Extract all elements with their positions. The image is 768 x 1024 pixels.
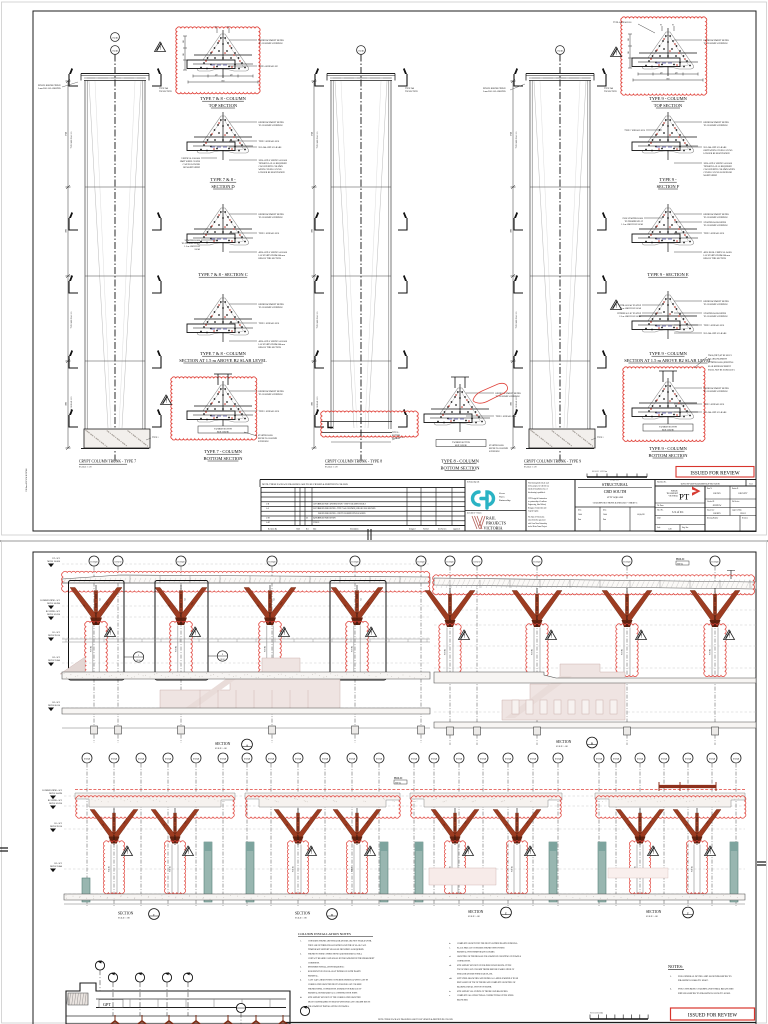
svg-text:Ed. Review: Ed. Review — [732, 501, 740, 503]
svg-text:NOTES:: NOTES: — [668, 964, 683, 969]
disclaimer cell — [526, 480, 575, 532]
svg-text:MVRL 103.350: MVRL 103.350 — [47, 614, 60, 616]
svg-text:TYPE 5 SHEAR LUGS: TYPE 5 SHEAR LUGS — [704, 403, 725, 406]
revision cloud around trunk of F1 — [629, 841, 650, 894]
svg-text:SECTION: SECTION — [215, 742, 231, 746]
slab at B3 level section A — [62, 708, 430, 714]
svg-text:COMPLETE GROUT INTO THE DUCTS: COMPLETE GROUT INTO THE DUCTS WITHIN IN-… — [457, 942, 518, 945]
svg-text:MAX 22/B2/B1: MAX 22/B2/B1 — [455, 444, 467, 447]
svg-text:ECQ-4B: ECQ-4B — [91, 562, 99, 564]
precast trunk below D2 — [353, 845, 355, 894]
svg-text:TYPE 7 & 8 - COLUMN: TYPE 7 & 8 - COLUMN — [200, 96, 247, 101]
plan Y-column symbols upper row — [111, 1015, 120, 1024]
svg-text:MVRL 103.350: MVRL 103.350 — [49, 803, 62, 805]
svg-text:1.5 m ABOVE B2 SLAB: 1.5 m ABOVE B2 SLAB — [621, 223, 643, 226]
svg-text:90: 90 — [672, 25, 674, 27]
steel Y branch column B3 — [602, 591, 652, 628]
warning triangle B4 — [724, 630, 735, 640]
precast trunk below E1 — [451, 845, 453, 894]
warning triangle A3 — [279, 627, 290, 637]
section cut flags on CRYPT COLUMN TRUNK - TYPE 8 — [398, 68, 407, 86]
svg-text:A-M: A-M — [266, 521, 270, 524]
revision cloud around trunk of B2 — [526, 624, 548, 677]
revision cloud around trunk of B4 — [704, 624, 726, 677]
svg-text:TOP SECTION: TOP SECTION — [209, 103, 238, 108]
svg-text:1905: 1905 — [66, 229, 68, 233]
svg-text:SECTION: SECTION — [468, 910, 484, 914]
warning triangle beside type 9 1.5m detail — [611, 300, 622, 310]
sheet 2 title block top line — [285, 1022, 756, 1024]
svg-text:ECQ-4B: ECQ-4B — [709, 759, 716, 761]
svg-text:CORRUGATED GROUTED DUCTS FOR P: CORRUGATED GROUTED DUCTS FOR PRECAST COL… — [308, 983, 362, 986]
svg-text:TYPE 7&8: TYPE 7&8 — [405, 88, 414, 90]
svg-text:ECQ-4B: ECQ-4B — [138, 759, 145, 761]
sheet 1 page edge — [2, 2, 767, 535]
svg-text:BEARING DETAIL ON TOP OF TRUNK: BEARING DETAIL ON TOP OF TRUNK. — [457, 986, 492, 989]
svg-text:SHALL NOT BE DAMAGED ): SHALL NOT BE DAMAGED ) — [708, 368, 735, 371]
svg-text:LONGER BE MAINTAINED: LONGER BE MAINTAINED — [259, 171, 285, 174]
steel Y branch column A4 — [331, 588, 383, 626]
steel Y branch column C2 — [151, 810, 199, 844]
svg-text:Date: Date — [313, 528, 317, 530]
column taper lines of CRYPT COLUMN TRUNK - TYPE 9 — [534, 81, 553, 428]
svg-text:SCALE 1 : 20: SCALE 1 : 20 — [325, 466, 338, 469]
svg-text:Sheet No.: Sheet No. — [657, 510, 664, 512]
svg-text:TYPE 3 SHEAR LUGS: TYPE 3 SHEAR LUGS — [259, 140, 280, 143]
svg-text:SCALE 1 : 100: SCALE 1 : 100 — [468, 915, 480, 918]
svg-text:TYP E 4SR DIA LUG: TYP E 4SR DIA LUG — [70, 131, 73, 149]
svg-text:TYPE 1 SHEAR LUGS: TYPE 1 SHEAR LUGS — [496, 415, 517, 418]
svg-text:REINFORCEMENT REFER: REINFORCEMENT REFER — [259, 304, 285, 306]
svg-text:1.5 m ABOVE B2: 1.5 m ABOVE B2 — [184, 245, 200, 248]
svg-text:245: 245 — [183, 53, 185, 56]
ceiling band section D — [245, 793, 400, 807]
pink ramp lower-left section A — [60, 657, 85, 674]
centerline over Y branch D2 — [356, 808, 358, 845]
plan room dividers — [129, 999, 131, 1008]
svg-text:ECQ-4B: ECQ-4B — [376, 759, 383, 761]
steel Y branch column E2 — [493, 810, 541, 844]
svg-text:LONGER BE MAINTAINED: LONGER BE MAINTAINED — [704, 152, 730, 155]
svg-text:B1 - SC2: B1 - SC2 — [55, 823, 62, 825]
column joint lines of CRYPT COLUMN TRUNK - TYPE 9 — [530, 186, 590, 188]
detail: type 7&8 section D — [187, 112, 253, 160]
svg-text:450: 450 — [215, 75, 218, 77]
svg-text:1905: 1905 — [511, 229, 513, 233]
svg-text:TRUNK DOWEL CONNECTION. ENSURE: TRUNK DOWEL CONNECTION. ENSURE TOP SURFA… — [308, 987, 362, 990]
column taper lines of CRYPT COLUMN TRUNK - TYPE 7 — [89, 81, 108, 428]
svg-text:SITE SURVEY ALL POINTS OF TRUN: SITE SURVEY ALL POINTS OF TRUNK AND BRAN… — [457, 990, 508, 993]
issued for review stamp sheet 2 — [671, 1008, 755, 1020]
svg-text:COGGED INTO COLUMN WHEN: COGGED INTO COLUMN WHEN — [704, 169, 736, 171]
revision cloud around trunk of B1 — [439, 624, 461, 677]
logo cell divider — [465, 510, 526, 512]
apex stub above type 8 bottom detail — [454, 377, 456, 388]
plan Y-column symbols lower row partial — [111, 1021, 120, 1024]
svg-text:MVRL 93.840: MVRL 93.840 — [48, 660, 60, 662]
svg-text:FOLLOWED BY INSTALLATION OF DO: FOLLOWED BY INSTALLATION OF DOWELS. — [308, 1005, 350, 1008]
svg-text:TRG6 (HILT) 6T RE S/DV.3: TRG6 (HILT) 6T RE S/DV.3 — [708, 354, 732, 357]
svg-text:PEDESTAL WITH TEMPORARY PACKER: PEDESTAL WITH TEMPORARY PACKERS. — [457, 951, 495, 954]
svg-text:ECQ-4B: ECQ-4B — [349, 759, 356, 761]
page separator mark — [367, 529, 369, 540]
svg-text:TOP SECTION: TOP SECTION — [159, 91, 172, 93]
svg-text:TEMPORARY SUPPORT SHALL BE PRO: TEMPORARY SUPPORT SHALL BE PROVIDED AS R… — [308, 948, 364, 951]
svg-text:ECQ-4B: ECQ-4B — [447, 562, 455, 564]
svg-text:GROUTING OF TRUNK BASE FOLLOWE: GROUTING OF TRUNK BASE FOLLOWED BY GROUT… — [457, 955, 521, 958]
svg-text:TYP E 4SR DIA LUG: TYP E 4SR DIA LUG — [316, 131, 319, 149]
svg-text:KHGVNTY: KHGVNTY — [739, 493, 749, 495]
column cap of CRYPT COLUMN TRUNK - TYPE 7 — [81, 73, 149, 75]
issued for review stamp sheet 1 — [676, 467, 754, 478]
grid line base stubs section B — [447, 727, 454, 735]
svg-text:ECQ-4B: ECQ-4B — [322, 759, 329, 761]
svg-text:TYP E 4SR DIA LUG: TYP E 4SR DIA LUG — [515, 311, 518, 329]
svg-text:INTENDED INSTALLATION SEQUENCE: INTENDED INSTALLATION SEQUENCE: — [308, 966, 345, 969]
svg-text:SECTION: SECTION — [646, 910, 662, 914]
svg-text:REINFORCEMENT REFER: REINFORCEMENT REFER — [704, 40, 730, 42]
svg-text:NOTE: THESE PACKAGE DRAWINGS A: NOTE: THESE PACKAGE DRAWINGS ARE TO BE V… — [378, 1018, 453, 1021]
svg-text:2.5 m ABOVE B2 SLAB: 2.5 m ABOVE B2 SLAB — [619, 315, 641, 318]
svg-text:N12-200 ADD L U-BARS: N12-200 ADD L U-BARS — [704, 411, 728, 414]
svg-text:CQ-4B: CQ-4B — [557, 50, 563, 52]
svg-text:Approved: Approved — [453, 527, 460, 530]
svg-text:ECQ-4B: ECQ-4B — [685, 759, 692, 761]
svg-text:TO COLUMN SCHEDULE: TO COLUMN SCHEDULE — [259, 394, 284, 396]
detail: type 9 section F — [632, 112, 698, 160]
pink stair building section B — [502, 664, 625, 720]
svg-text:STARTER BARS: STARTER BARS — [185, 239, 201, 242]
revision cloud around trunk of D2 — [346, 841, 367, 894]
drawing number bar — [655, 480, 756, 487]
detail tag 2 section A — [208, 655, 217, 657]
svg-text:Verified: Verified — [423, 527, 429, 530]
svg-text:CQ-4B: CQ-4B — [112, 37, 118, 39]
svg-text:SCALE 1 : 100: SCALE 1 : 100 — [646, 915, 658, 918]
svg-text:TAPERED SECTION: TAPERED SECTION — [659, 426, 677, 429]
svg-text:ECQ-4B: ECQ-4B — [165, 759, 172, 761]
revision cloud around trunk of A2 — [170, 621, 193, 675]
svg-text:A-M: A-M — [266, 517, 270, 520]
svg-text:PC6-B2: PC6-B2 — [512, 866, 514, 872]
column joint lines of CRYPT COLUMN TRUNK - TYPE 7 — [85, 186, 145, 188]
svg-text:VICTORIA: VICTORIA — [484, 526, 503, 531]
svg-text:Plant/Item No.: Plant/Item No. — [657, 482, 667, 484]
svg-text:ECQ-4B: ECQ-4B — [111, 759, 118, 761]
svg-text:MVRL 104.390: MVRL 104.390 — [49, 793, 62, 795]
svg-text:380: 380 — [183, 40, 185, 43]
svg-text:REINFORCEMENT REFER: REINFORCEMENT REFER — [259, 214, 285, 216]
steel Y branch column B1 — [425, 591, 475, 628]
teal escalator bars row 2 — [204, 842, 212, 902]
svg-text:CAST 1140-A HIGH IN-SITU CONCR: CAST 1140-A HIGH IN-SITU CONCRETE PEDEST… — [308, 979, 368, 982]
sheet 1 scale bar — [587, 476, 647, 478]
svg-text:DUCTS CENTRELINES TO MATCH WIT: DUCTS CENTRELINES TO MATCH WITH PRECAST … — [308, 1000, 370, 1003]
svg-text:TYPE 7 & 8 - SECTION C: TYPE 7 & 8 - SECTION C — [198, 272, 248, 277]
ceiling band section C — [75, 793, 235, 807]
sheet 1 title block outline — [260, 479, 756, 481]
svg-text:ISSUED FOR CONSTRUCTION - CRYP: ISSUED FOR CONSTRUCTION - CRYPT COLUMN D… — [318, 502, 366, 505]
svg-text:REINFORCEMENT REFER: REINFORCEMENT REFER — [704, 301, 730, 303]
revision cloud around trunk of E1 — [444, 841, 465, 894]
svg-text:THEY ARE IN THEIR FINAL POSITI: THEY ARE IN THEIR FINAL POSITION AND THE… — [308, 944, 367, 947]
svg-text:LAP STARTS FROM 600 mm: LAP STARTS FROM 600 mm — [259, 343, 286, 346]
plan grid flags — [108, 973, 117, 982]
detail: type 7&8 column top section — [187, 30, 253, 78]
grid bubble(s) above CRYPT COLUMN TRUNK - TYPE 7 — [111, 33, 120, 42]
svg-text:PLACE PRECAST CONCRETE TRUNK O: PLACE PRECAST CONCRETE TRUNK ONTO IN-SIT… — [457, 946, 505, 949]
svg-text:ECQ-4B: ECQ-4B — [84, 759, 91, 761]
svg-text:CBD SOUTH: CBD SOUTH — [604, 489, 627, 494]
svg-text:BRANCHES.: BRANCHES. — [457, 999, 469, 1002]
warning triangle beside top detail — [155, 42, 166, 52]
svg-text:CONDITION.: CONDITION. — [308, 962, 320, 964]
slab at B2 level section A — [62, 672, 430, 679]
svg-text:SECTION AT 1.5 m ABOVE B2 SLAB: SECTION AT 1.5 m ABOVE B2 SLAB LEVEL — [179, 358, 267, 363]
centerline over Y branch D1 — [297, 808, 299, 845]
svg-text:ECQ-4B: ECQ-4B — [418, 562, 426, 564]
svg-text:BELOW THIS SECTION: BELOW THIS SECTION — [259, 258, 282, 260]
svg-text:Chkd: Chkd — [578, 514, 582, 516]
steel Y branch column B4 — [690, 591, 740, 628]
revision cloud around trunk of F2 — [686, 841, 707, 894]
centerline over Y branch B1 — [449, 588, 451, 627]
svg-text:Revision By: Revision By — [268, 528, 277, 530]
svg-text:3N20 ADD L VERTICAL BARS: 3N20 ADD L VERTICAL BARS — [259, 159, 288, 162]
revision cloud blob right of type 8 bottom detail — [473, 383, 508, 403]
svg-text:SCALE 1 : 100: SCALE 1 : 100 — [215, 747, 227, 750]
svg-text:ECQ-4B: ECQ-4B — [480, 759, 487, 761]
svg-text:TOP SECTION: TOP SECTION — [604, 91, 617, 93]
svg-text:TYP E 4SR DIA LUG: TYP E 4SR DIA LUG — [515, 131, 518, 149]
svg-text:INTERNAL LIG TO STOP: INTERNAL LIG TO STOP — [617, 312, 642, 315]
svg-text:CRYPT COLUMN TRUNK - TYPE 8: CRYPT COLUMN TRUNK - TYPE 8 — [325, 460, 382, 464]
dark red beam segments top of section F — [659, 785, 716, 788]
svg-text:Del. Review: Del. Review — [438, 528, 447, 530]
svg-text:TAN-CYP-CBS-SCQ-DHS8-SGP-TSC-S: TAN-CYP-CBS-SCQ-DHS8-SGP-TSC-S2198 — [680, 483, 719, 486]
svg-text:-10 5 0 5 10 15 2: -10 5 0 5 10 15 20m — [590, 1013, 604, 1015]
svg-text:REINFORCEMENT REFER: REINFORCEMENT REFER — [496, 393, 522, 395]
svg-text:TO COLUMN SCHEDULE: TO COLUMN SCHEDULE — [704, 316, 729, 318]
svg-text:1:20: 1:20 — [668, 529, 672, 531]
slab lines at base of CRYPT COLUMN TRUNK - TYPE 8 — [321, 421, 392, 423]
svg-text:450: 450 — [675, 73, 678, 75]
svg-text:1T1: 1T1 — [272, 598, 274, 601]
svg-text:SCALE 1 : 100: SCALE 1 : 100 — [295, 917, 307, 920]
scale bar sheet 2 — [590, 1018, 648, 1020]
svg-text:TYPE 9 - SECTION E: TYPE 9 - SECTION E — [647, 272, 688, 277]
svg-text:TYPE 8 - COLUMN: TYPE 8 - COLUMN — [441, 459, 480, 464]
svg-text:380: 380 — [628, 38, 630, 41]
svg-text:B/2 ARRANGEMENT: B/2 ARRANGEMENT — [708, 358, 728, 361]
svg-text:PC6-B2: PC6-B2 — [109, 866, 111, 872]
svg-text:B1 MEZZANINE - SC2: B1 MEZZANINE - SC2 — [40, 599, 60, 602]
svg-text:1905: 1905 — [312, 402, 314, 406]
detail: type 9 column bottom section — [632, 378, 698, 426]
svg-text:S3.2: S3.2 — [749, 484, 752, 486]
svg-text:N12-200 ADD L U-BARS: N12-200 ADD L U-BARS — [704, 146, 728, 149]
section cut flags on CRYPT COLUMN TRUNK - TYPE 7 — [152, 68, 161, 86]
section cut flags on CRYPT COLUMN TRUNK - TYPE 9 — [597, 68, 606, 86]
warning triangle B1 — [459, 630, 470, 640]
svg-text:0.5 0 0.5 1 1.5 2: 0.5 0 0.5 1 1.5 2 2.5m — [592, 471, 608, 473]
svg-text:MVRL 99.150: MVRL 99.150 — [48, 635, 60, 637]
svg-text:PC6-B2: PC6-B2 — [352, 866, 354, 872]
svg-text:CONNECTION.: CONNECTION. — [457, 960, 471, 962]
column footing of CRYPT COLUMN TRUNK - TYPE 9 — [529, 429, 595, 448]
centerline over Y branch F2 — [696, 808, 698, 845]
svg-text:OMIT WHEN COVER CAN NO: OMIT WHEN COVER CAN NO — [704, 149, 733, 152]
svg-text:LHGBXV: LHGBXV — [713, 513, 721, 515]
svg-text:BOTTOM SECTION: BOTTOM SECTION — [203, 456, 243, 461]
sheet 1 border frame — [33, 11, 756, 531]
svg-text:TOP OF PRECAST COLUMN TRUNK BE: TOP OF PRECAST COLUMN TRUNK BEFORE FABRI… — [457, 968, 515, 971]
svg-text:CONTACT BEARING AND SHALL NOT: CONTACT BEARING AND SHALL NOT BE WELDED … — [308, 957, 375, 960]
svg-text:PT: PT — [679, 492, 690, 502]
column shaft outer lines of CRYPT COLUMN TRUNK - TYPE 8 — [330, 81, 332, 430]
svg-text:UF - SC2: UF - SC2 — [52, 558, 60, 560]
dimension line left of CRYPT COLUMN TRUNK - TYPE 8 — [313, 81, 315, 448]
svg-text:VERTICAL U-BARS: VERTICAL U-BARS — [181, 157, 201, 160]
dimension line left of CRYPT COLUMN TRUNK - TYPE 7 — [67, 81, 69, 448]
precast trunk below F2 — [693, 845, 695, 894]
svg-text:ECQ-4B: ECQ-4B — [268, 759, 275, 761]
plan left hatched block — [68, 993, 88, 1005]
svg-text:Chkd: Chkd — [296, 528, 300, 530]
svg-text:3N20 ADD L VERTICAL BARS: 3N20 ADD L VERTICAL BARS — [704, 162, 733, 165]
steel Y branch column D1 — [274, 810, 322, 844]
centerline of CRYPT COLUMN TRUNK - TYPE 8 — [360, 55, 362, 463]
precast trunk below D1 — [294, 845, 296, 894]
svg-text:COMPLETE ALL STRUCTURAL CONNEC: COMPLETE ALL STRUCTURAL CONNECTIONS OF T… — [457, 994, 515, 997]
svg-text:2748: 2748 — [66, 132, 68, 136]
precast trunk below E2 — [513, 845, 515, 894]
svg-text:AS(4)-220: AS(4)-220 — [637, 513, 645, 516]
plan grid flag far right — [300, 1006, 309, 1015]
centerline over Y branch A2 — [180, 585, 182, 625]
svg-text:COVER CAN NO LONGER BE: COVER CAN NO LONGER BE — [704, 171, 733, 174]
svg-text:FOR CONCRETE COLUMN AND STEEL: FOR CONCRETE COLUMN AND STEEL BRANCHES — [678, 988, 734, 991]
svg-text:LIFT STEEL BRANCHES AND NODES: LIFT STEEL BRANCHES AND NODES AS A SINGL… — [457, 977, 519, 980]
svg-text:BELOW THIS SECTION: BELOW THIS SECTION — [259, 347, 282, 349]
svg-text:C/R-SheetS21 NEW1/CRPM4: C/R-SheetS21 NEW1/CRPM4 — [26, 469, 28, 492]
svg-text:TYPE 7 SHEAR LUGS: TYPE 7 SHEAR LUGS — [624, 129, 645, 132]
svg-text:STARTER BARS REFER: STARTER BARS REFER — [704, 221, 727, 224]
detail: type 8 column bottom section — [424, 384, 490, 432]
svg-text:TYPE 9 - COLUMN: TYPE 9 - COLUMN — [649, 351, 688, 356]
tapered section dim box of type 8 bottom detail — [436, 440, 486, 447]
centerline over Y branch A1 — [95, 585, 97, 625]
svg-text:3 mm DIA ALL AROUND: 3 mm DIA ALL AROUND — [38, 87, 61, 90]
svg-text:TOP SECTION: TOP SECTION — [405, 91, 418, 93]
precast trunk below A4 — [353, 626, 355, 675]
svg-text:TO TERMINATE AT: TO TERMINATE AT — [182, 242, 201, 245]
sheet 2 right binding mark — [757, 861, 766, 863]
dimension line left of CRYPT COLUMN TRUNK - TYPE 9 — [512, 81, 514, 448]
warning triangle D2 — [365, 846, 376, 856]
slab at B2 level section B — [434, 672, 756, 683]
svg-text:HOLD: HOLD — [676, 557, 685, 561]
svg-text:1905: 1905 — [312, 229, 314, 233]
column footing of CRYPT COLUMN TRUNK - TYPE 7 — [84, 429, 150, 448]
logo cell frame — [465, 480, 526, 532]
centerline over Y branch B3 — [626, 588, 628, 627]
warning triangle E2 — [525, 846, 536, 856]
svg-text:PC6-B2: PC6-B2 — [91, 646, 93, 652]
svg-text:CRYPT COLUMN TRUNK - TYPE 7: CRYPT COLUMN TRUNK - TYPE 7 — [79, 460, 136, 464]
svg-text:SCALE 1 : 100: SCALE 1 : 100 — [118, 917, 130, 920]
svg-text:TYPE 7 & 8 - COLUMN: TYPE 7 & 8 - COLUMN — [200, 351, 247, 356]
revision cloud around type 8 column footing — [321, 411, 419, 437]
svg-text:B1 MEZZANINE - SC2: B1 MEZZANINE - SC2 — [42, 789, 62, 792]
svg-text:29/8/12: 29/8/12 — [740, 513, 746, 515]
svg-text:TO COLUMN SCHEDULE: TO COLUMN SCHEDULE — [496, 396, 521, 398]
svg-text:COLUMN INSTALLATION NOTES: COLUMN INSTALLATION NOTES — [298, 932, 351, 936]
svg-text:ECQ-4B: ECQ-4B — [712, 562, 720, 564]
svg-text:STEEL BRANCHES NODE BASE PLATE: STEEL BRANCHES NODE BASE PLATE. — [457, 972, 493, 975]
svg-text:ECQ-4B: ECQ-4B — [555, 759, 562, 761]
svg-text:CITY SQUARE: CITY SQUARE — [607, 496, 624, 499]
detail: type 7&8 section at 1.5m above B2 slab — [187, 294, 253, 342]
title block right cells — [705, 486, 756, 532]
svg-text:TO COLUMN SCHEDULE: TO COLUMN SCHEDULE — [704, 391, 729, 393]
precast trunk below B3 — [623, 628, 625, 677]
warning triangle E1 — [463, 846, 474, 856]
steel Y branch column A3 — [244, 588, 296, 626]
grid line base stubs section A — [91, 726, 98, 734]
warning triangle A1 — [105, 627, 116, 637]
precast trunk below F1 — [636, 845, 638, 894]
apex stub above type 9 bottom detail — [662, 371, 664, 382]
svg-text:Rev: Rev — [306, 528, 309, 530]
revision cloud around trunk of A3 — [259, 621, 282, 675]
svg-text:SCHEDULE: SCHEDULE — [258, 441, 269, 443]
beam line section A mid — [62, 638, 430, 640]
svg-text:SECTION AT 1.5 m ABOVE B2 SLAB: SECTION AT 1.5 m ABOVE B2 SLAB LEVEL — [624, 358, 712, 363]
svg-text:SECTION: SECTION — [556, 740, 572, 744]
svg-text:LAP STARTS FROM 600 mm: LAP STARTS FROM 600 mm — [704, 254, 731, 257]
svg-text:27/08/21: 27/08/21 — [313, 522, 319, 524]
svg-text:12/07/21: 12/07/21 — [313, 503, 319, 505]
svg-text:TO COLUMN SCHEDULE: TO COLUMN SCHEDULE — [704, 225, 729, 227]
svg-text:ROUGHEN TOP OF B2 SLAB AT INTE: ROUGHEN TOP OF B2 SLAB AT INTERFACE WITH… — [308, 970, 362, 973]
detail tag 1 section A — [124, 656, 133, 658]
svg-text:4N20 ADD L VERTICAL BARS: 4N20 ADD L VERTICAL BARS — [259, 340, 288, 343]
revision table — [261, 488, 465, 526]
revision cloud around trunk of A4 — [346, 621, 369, 675]
joint ticks on section B roof band — [450, 580, 750, 588]
svg-text:245: 245 — [628, 51, 630, 54]
svg-text:S2101: S2101 — [136, 660, 140, 662]
svg-text:TYPE 5 SHEAR LUGS: TYPE 5 SHEAR LUGS — [704, 324, 725, 327]
svg-text:PC6-B2: PC6-B2 — [710, 649, 712, 655]
steel Y branch column D2 — [333, 810, 381, 844]
svg-text:REINFORCEMENT REFER: REINFORCEMENT REFER — [259, 40, 285, 42]
svg-text:JUNHTGW: JUNHTGW — [713, 505, 722, 507]
svg-text:PC6-B2: PC6-B2 — [445, 649, 447, 655]
svg-text:N12-200 ADD L U-BARS: N12-200 ADD L U-BARS — [259, 146, 283, 149]
svg-text:MVRL 99.150: MVRL 99.150 — [50, 826, 62, 828]
svg-text:ISSUED FOR REVIEW: ISSUED FOR REVIEW — [688, 1014, 737, 1019]
svg-text:Chkd: Chkd — [603, 514, 607, 516]
svg-text:SCALE 1 : 20: SCALE 1 : 20 — [524, 466, 537, 469]
svg-text:COLUMN SECTIONS & DETAILS - SH: COLUMN SECTIONS & DETAILS - SHEET 3 — [593, 502, 638, 505]
svg-text:SLAB REINFORCEMENT: SLAB REINFORCEMENT — [708, 365, 732, 368]
svg-text:BE MAINTAINED: BE MAINTAINED — [183, 166, 200, 169]
svg-text:TYPE 7&8: TYPE 7&8 — [604, 88, 613, 90]
svg-text:ECQ-4B: ECQ-4B — [269, 562, 277, 564]
centerline over Y branch B2 — [536, 588, 538, 627]
